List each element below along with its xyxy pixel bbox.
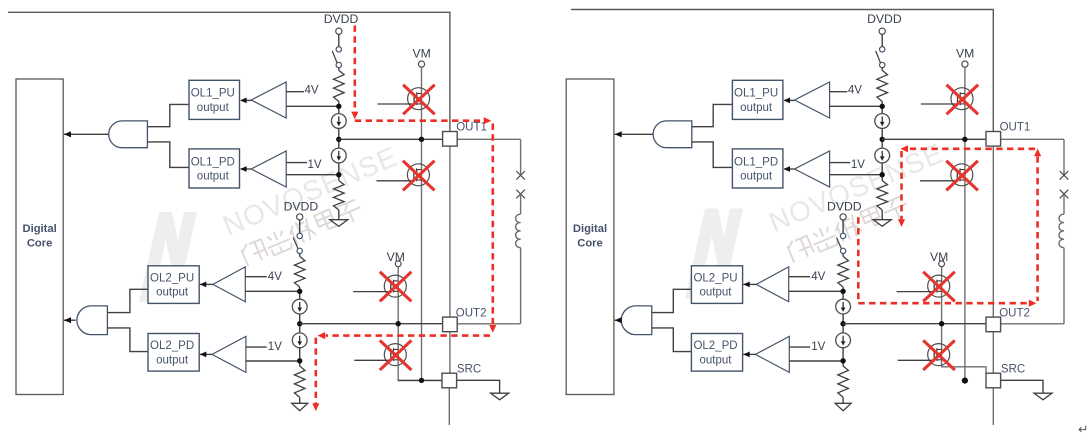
wire U3' output arrow into OL2_PU <box>743 283 756 285</box>
node 1V tap lower' <box>840 358 845 363</box>
red current path: DVDD down (left) <box>353 26 356 113</box>
wire R4 to ground <box>299 397 301 403</box>
wire G2' input A from OL2_PU output block <box>652 289 692 312</box>
current source I4 <box>292 333 307 348</box>
wire SRC row <box>398 379 442 381</box>
junction VM1/OUT1' <box>962 137 967 142</box>
resistor R2 <box>334 181 345 211</box>
block OL2_PD output <box>148 334 199 372</box>
svg-text:output: output <box>700 354 733 366</box>
wire DVDD to switch <box>881 34 883 46</box>
wire U1 output arrow into OL1_PU <box>241 99 251 101</box>
wire VM1 vertical <box>421 67 423 380</box>
ground under upper chain' <box>873 220 891 227</box>
node 4V tap upper' <box>880 104 885 109</box>
svg-text:SRC: SRC <box>1001 364 1025 376</box>
node 4V tap upper <box>336 104 341 109</box>
wire I4 to 1V node <box>299 348 301 366</box>
svg-text:1V: 1V <box>308 159 322 171</box>
svg-text:OUT2: OUT2 <box>999 308 1030 320</box>
current source I2' <box>875 148 890 163</box>
wire G1' input B from OL1_PD output block <box>692 142 733 168</box>
svg-text:OL2_PU: OL2_PU <box>150 272 194 284</box>
wire I3 to OUT2 node <box>842 314 844 333</box>
svg-text:OL2_PD: OL2_PD <box>693 340 737 352</box>
switch SW1 <box>336 47 341 52</box>
wire resistor to 4V node <box>299 287 301 299</box>
label 4V reference U3' <box>789 276 810 278</box>
node 1V tap lower <box>297 358 302 363</box>
inductor L1' (motor winding) <box>1059 214 1064 247</box>
break mark x2' <box>1060 190 1069 199</box>
terminal DVDD lower' <box>840 214 846 220</box>
wire U4' output arrow into OL2_PD <box>743 353 755 355</box>
red X over Q1 <box>403 85 435 115</box>
terminal VM upper <box>418 61 424 67</box>
switch SW2 <box>297 233 302 238</box>
wire OUT2 row <box>300 323 443 325</box>
resistor R4' <box>838 366 849 397</box>
red current path: across to OUT1 <box>355 119 483 122</box>
wire U2' output arrow into OL1_PD <box>784 168 794 170</box>
svg-text:Core: Core <box>27 238 53 250</box>
ground at SRC' <box>1034 393 1052 400</box>
wire load return to OUT2 <box>457 323 520 325</box>
wire to inductor <box>520 194 522 214</box>
node OUT2 tap <box>297 321 302 326</box>
svg-text:1V: 1V <box>268 341 282 353</box>
svg-text:Digital: Digital <box>573 223 607 235</box>
comparator U1' (4V) <box>795 82 830 118</box>
red current path: up OUT2 to OUT1 (right) <box>1036 156 1039 301</box>
transistor Q3' (high-side FET 2, disabled) <box>928 275 950 297</box>
ground under lower chain <box>292 403 308 410</box>
block OL1_PD output <box>189 149 240 188</box>
svg-text:VM: VM <box>413 46 431 60</box>
label 1V reference U2' <box>830 162 851 164</box>
wire resistor to 4V node <box>842 287 844 299</box>
wire switch to resistor <box>338 68 340 71</box>
AND gate G1' <box>653 121 692 148</box>
red X over Q4 <box>380 340 412 370</box>
wire OUT1 row' <box>882 138 986 140</box>
comparator U1 (4V) <box>251 82 286 118</box>
svg-text:DVDD: DVDD <box>324 12 359 26</box>
wire U2' input from 1V tap node <box>830 174 883 176</box>
svg-text:4V: 4V <box>268 271 282 283</box>
wire U2 output arrow into OL1_PD <box>241 168 251 170</box>
red X over Q2' <box>946 161 978 191</box>
svg-text:OL1_PU: OL1_PU <box>734 88 778 100</box>
transistor Q4 (low-side FET 2, disabled) <box>384 344 406 366</box>
wire I4 to 1V node <box>842 348 844 366</box>
terminal DVDD upper' <box>879 28 885 34</box>
wire I3 to OUT2 node <box>299 314 301 333</box>
wire load branch upper segment <box>520 139 522 175</box>
current source I1' <box>875 114 890 129</box>
node 4V tap lower' <box>840 289 845 294</box>
svg-text:OL1_PD: OL1_PD <box>734 156 778 168</box>
comparator U4' (1V) <box>755 336 789 372</box>
red X over Q4' <box>923 340 955 370</box>
switch SW1' <box>880 47 885 52</box>
wire VM1 vertical' <box>964 67 966 380</box>
block OL1_PD output' <box>732 149 783 188</box>
red X over Q1' <box>947 85 979 115</box>
pad OUT1 <box>443 132 458 147</box>
wire G1' input A from OL1_PU output block <box>692 104 733 126</box>
node OUT2 tap' <box>840 321 845 326</box>
wire OUT1 row <box>339 138 443 140</box>
svg-text:Core: Core <box>577 238 603 250</box>
end dot VM1 line' <box>962 378 968 384</box>
wire SRC to ground' <box>1001 380 1043 393</box>
wire switch to resistor <box>881 68 883 71</box>
svg-text:OL1_PU: OL1_PU <box>191 88 235 100</box>
current source I4' <box>836 333 851 348</box>
wire G2' input B from OL2_PD output block <box>652 328 692 352</box>
wire G1 input A from OL1_PU output block <box>147 104 189 126</box>
resistor R4 <box>294 366 305 397</box>
red current path: down to ground (left) <box>314 338 317 404</box>
wire switch to resistor <box>842 254 844 257</box>
block OL2_PD output' <box>691 334 742 372</box>
junction VM1/OUT1 <box>419 137 424 142</box>
svg-text:VM: VM <box>956 46 974 60</box>
svg-text:Digital: Digital <box>23 223 57 235</box>
svg-text:4V: 4V <box>848 85 862 97</box>
wire G2 output to Digital Core with arrow <box>64 319 76 321</box>
comparator U2' (1V) <box>795 151 830 187</box>
label 1V reference U2 <box>286 162 307 164</box>
wire G1 output to Digital Core with arrow <box>64 133 109 135</box>
watermark text NOVOSENSE <box>764 137 959 265</box>
wire G2 input A from OL2_PU output block <box>107 289 148 312</box>
resistor R2' <box>877 181 888 211</box>
wire U2 input from 1V tap node <box>286 174 339 176</box>
red X over Q2 <box>403 161 435 191</box>
wire R2 to ground <box>881 210 883 220</box>
red current path: left below OUT2 <box>326 334 490 337</box>
wire G1' output to Digital Core with arrow <box>615 133 653 135</box>
transistor Q2 (low-side FET, disabled) <box>407 164 429 186</box>
terminal VM upper' <box>962 61 968 67</box>
wire OUT1 to load' <box>1001 138 1064 140</box>
svg-text:OL2_PU: OL2_PU <box>693 272 737 284</box>
wire load branch upper segment' <box>1063 139 1065 175</box>
wire inductor to OUT2 return' <box>1063 248 1065 324</box>
transistor Q4' (low-side FET 2, disabled) <box>928 344 950 366</box>
spine wire OUT2-SRC <box>449 332 451 374</box>
comparator U3' (4V) <box>756 267 788 302</box>
current source I3 <box>292 299 307 314</box>
label 4V reference U3 <box>245 276 266 278</box>
svg-text:OL2_PD: OL2_PD <box>150 340 194 352</box>
wire G1 input B from OL1_PD output block <box>147 142 189 168</box>
wire I2 to 1V node <box>338 163 340 181</box>
node 1V tap upper <box>336 172 341 177</box>
node OUT1 tap <box>336 137 341 142</box>
wire VM2 vertical <box>398 267 442 381</box>
transistor Q1' (high-side FET, disabled) <box>951 88 973 110</box>
svg-text:1V: 1V <box>811 341 825 353</box>
watermark logo N <box>139 212 197 302</box>
wire SRC to ground <box>457 380 500 393</box>
wire I2 to 1V node <box>881 163 883 181</box>
svg-text:output: output <box>740 171 773 183</box>
top rail wire from core area to OUT1 <box>571 10 993 132</box>
wire VM2 vertical' <box>942 267 986 373</box>
break mark x1 <box>516 171 525 180</box>
AND gate G2' <box>621 306 652 335</box>
watermark text CJK (approximated glyph strokes) <box>240 238 268 266</box>
svg-text:4V: 4V <box>811 271 825 283</box>
red current path: down into ground (right) <box>900 151 903 220</box>
wire I1 to OUT1 node <box>881 128 883 148</box>
svg-text:SRC: SRC <box>457 364 481 376</box>
svg-text:DVDD: DVDD <box>827 200 862 214</box>
pad SRC <box>442 373 457 388</box>
Digital Core block U_core' <box>566 79 614 395</box>
terminal DVDD upper <box>336 28 342 34</box>
current source I2 <box>331 148 346 163</box>
comparator U2 (1V) <box>251 151 286 187</box>
wire switch to resistor <box>299 254 301 257</box>
svg-text:4V: 4V <box>305 85 319 97</box>
svg-text:output: output <box>156 287 189 299</box>
wire DVDD to switch <box>299 220 301 233</box>
svg-text:output: output <box>700 287 733 299</box>
transistor Q1 (high-side FET, disabled) <box>408 88 430 110</box>
wire resistor to 4V node <box>338 102 340 114</box>
svg-text:OUT1: OUT1 <box>1000 122 1031 134</box>
terminal VM lower' <box>939 261 945 267</box>
block OL2_PU output <box>148 266 199 304</box>
inductor L1 (motor winding) <box>516 214 521 247</box>
pad SRC' <box>986 373 1001 388</box>
resistor R3 <box>294 256 305 287</box>
spine wire below SRC' <box>992 388 994 425</box>
svg-text:output: output <box>740 102 773 114</box>
svg-text:OUT2: OUT2 <box>456 308 487 320</box>
wire R2 to ground <box>338 210 340 220</box>
spine wire OUT1-OUT2 <box>449 146 451 317</box>
red X over Q3 <box>380 272 412 302</box>
AND gate G2 <box>77 306 108 335</box>
wire U4' input from lower 1V tap node <box>789 360 843 362</box>
label 1V reference U4' <box>789 346 810 348</box>
wire G2 input B from OL2_PD output block <box>107 328 148 352</box>
junction VM2/OUT2 <box>396 321 401 326</box>
junction VM2/OUT2' <box>939 321 944 326</box>
resistor R1 <box>334 70 345 101</box>
wire U3' input from lower 4V tap node <box>789 290 843 292</box>
top rail wire from core area to OUT1 <box>8 12 450 131</box>
svg-text:OUT1: OUT1 <box>456 122 487 134</box>
wire U1' input from 4V tap node <box>830 105 883 107</box>
ground under upper chain <box>330 220 348 227</box>
wire OUT1 to load <box>457 138 520 140</box>
spine wire OUT2-SRC' <box>992 332 994 374</box>
svg-text:DVDD: DVDD <box>867 12 902 26</box>
switch SW2' <box>840 233 845 238</box>
wire U4 input from lower 1V tap node <box>246 360 300 362</box>
svg-text:1V: 1V <box>851 159 865 171</box>
resistor R3' <box>838 256 849 287</box>
wire U1 input from 4V tap node <box>286 105 339 107</box>
transistor Q3 (high-side FET 2, disabled) <box>384 275 406 297</box>
svg-text:↵: ↵ <box>1078 423 1088 437</box>
wire U3 input from lower 4V tap node <box>245 290 299 292</box>
label 1V reference U4 <box>246 346 267 348</box>
wire U3 output arrow into OL2_PU <box>200 283 213 285</box>
label 4V reference U1' <box>830 91 848 93</box>
wire inductor to OUT2 return <box>520 248 522 324</box>
Digital Core block U_core <box>16 79 63 395</box>
wire R4 to ground <box>842 397 844 403</box>
terminal DVDD lower <box>297 214 303 220</box>
wire G2' output to Digital Core with arrow <box>615 319 620 321</box>
wire OUT2 row' <box>843 323 986 325</box>
wire U4 output arrow into OL2_PD <box>200 353 212 355</box>
AND gate G1 <box>109 121 148 148</box>
ground at SRC <box>491 393 509 400</box>
node OUT1 tap' <box>880 137 885 142</box>
watermark logo N <box>685 209 743 299</box>
terminal VM lower <box>395 261 401 267</box>
watermark text NOVOSENSE <box>218 141 413 269</box>
wire resistor to 4V node <box>881 102 883 114</box>
wire load return to OUT2' <box>1001 323 1064 325</box>
block OL1_PU output' <box>732 80 783 119</box>
wire DVDD to switch <box>338 34 340 46</box>
red X over Q3' <box>923 272 955 302</box>
red current path: along bottom to OUT2 (right) <box>858 302 1028 305</box>
red current path: down OUT1 to OUT2 <box>491 124 494 326</box>
svg-text:DVDD: DVDD <box>284 200 319 214</box>
red current path: start down from DVDD2 area (right) <box>857 217 860 303</box>
transistor Q2' (low-side FET, disabled) <box>951 164 973 186</box>
current source I3' <box>836 299 851 314</box>
svg-text:output: output <box>156 354 189 366</box>
spine wire below SRC <box>448 388 450 425</box>
break mark x2 <box>516 190 525 199</box>
node 1V tap upper' <box>880 172 885 177</box>
resistor R1' <box>877 70 888 101</box>
red current path: left along top (right) <box>908 148 1035 151</box>
block OL2_PU output' <box>691 266 742 304</box>
wire U1' output arrow into OL1_PU <box>784 99 794 101</box>
comparator U3 (4V) <box>213 267 245 302</box>
svg-text:output: output <box>197 171 230 183</box>
break mark x1' <box>1060 171 1069 180</box>
pad OUT2 <box>443 317 458 332</box>
wire DVDD to switch <box>842 220 844 233</box>
junction VM1/SRC <box>419 378 424 383</box>
ground under lower chain' <box>835 403 851 410</box>
block OL1_PU output <box>189 80 240 119</box>
current source I1 <box>331 114 346 129</box>
pad OUT1' <box>986 132 1001 147</box>
svg-text:OL1_PD: OL1_PD <box>191 156 235 168</box>
pad OUT2' <box>986 317 1001 332</box>
label 4V reference U1 <box>286 91 304 93</box>
node 4V tap lower <box>297 289 302 294</box>
wire to inductor' <box>1063 194 1065 214</box>
watermark text CJK (approximated glyph strokes) <box>786 235 814 263</box>
svg-text:output: output <box>197 102 230 114</box>
wire I1 to OUT1 node <box>338 128 340 148</box>
comparator U4 (1V) <box>212 336 246 372</box>
spine wire OUT1-OUT2' <box>992 146 994 317</box>
